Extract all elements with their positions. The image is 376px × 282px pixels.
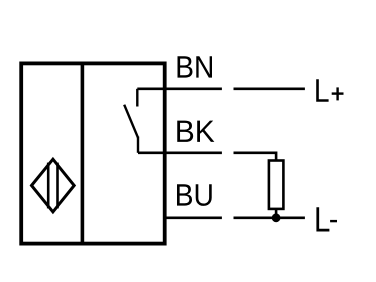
internal divider xyxy=(81,62,85,246)
wire BK segment 2 with corner to load xyxy=(234,153,277,162)
diamond inner line right xyxy=(56,163,59,209)
label BK xyxy=(177,121,214,142)
wire BK segment 1 xyxy=(138,152,222,155)
sensor body box xyxy=(21,63,165,243)
label L+ xyxy=(316,79,328,101)
inductive sensor diamond symbol xyxy=(32,159,75,212)
diamond inner line left xyxy=(47,163,50,209)
load resistor xyxy=(269,161,284,209)
switch lever lower vertical xyxy=(137,137,139,153)
label BU xyxy=(177,184,212,206)
label BN xyxy=(178,56,212,77)
wire BN segment 2 xyxy=(234,88,305,91)
junction dot xyxy=(272,213,281,222)
switch fixed contact tick xyxy=(136,89,138,107)
wire BU segment 1 xyxy=(163,217,222,220)
resistor bottom stub xyxy=(275,209,278,218)
wire BU segment 2 xyxy=(234,217,305,220)
switch lever xyxy=(124,105,138,138)
label L- xyxy=(316,207,329,231)
wire BN segment 1 xyxy=(137,88,222,91)
